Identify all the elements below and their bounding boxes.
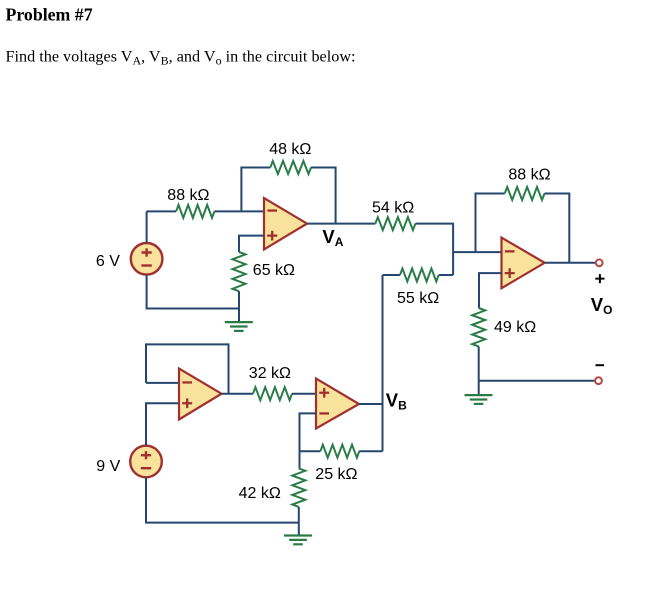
svg-text:25 kΩ: 25 kΩ: [315, 466, 357, 483]
wire 48k feedback right: [311, 168, 336, 224]
wire 54k to junction: [415, 224, 453, 275]
resistor R4 54k: [375, 217, 415, 230]
wire down to 42k: [299, 451, 301, 468]
terminal - circle: [595, 377, 602, 384]
svg-text:Find the voltages VA, VB, and: Find the voltages VA, VB, and Vo in the …: [6, 47, 356, 67]
svg-text:42 kΩ: 42 kΩ: [239, 485, 281, 502]
svg-text:65 kΩ: 65 kΩ: [253, 262, 295, 279]
ground G1: [225, 321, 253, 323]
resistor R6 88k: [505, 187, 545, 200]
wire V2 bottom return: [146, 477, 299, 522]
svg-text:VO: VO: [591, 294, 613, 317]
resistor R1 88k: [176, 205, 214, 218]
ground G3: [465, 394, 493, 396]
svg-text:49 kΩ: 49 kΩ: [494, 319, 536, 336]
wire 65k bottom: [238, 291, 240, 308]
wire U4 output to VB node: [359, 403, 383, 405]
wire V1 bottom return: [147, 275, 239, 309]
wire U1 plus input to 65k: [239, 236, 264, 252]
wire V1 top to 88k: [146, 211, 148, 243]
svg-text:88 kΩ: 88 kΩ: [508, 166, 550, 183]
resistor R2 48k: [270, 161, 311, 174]
svg-text:32 kΩ: 32 kΩ: [249, 365, 291, 382]
wire 42k bottom: [298, 507, 300, 523]
wire ground1 stem: [238, 309, 240, 322]
label + terminal: [595, 274, 604, 283]
wire 55k right lead: [439, 274, 453, 276]
wire VB vertical riser: [382, 275, 384, 451]
svg-text:9 V: 9 V: [96, 458, 120, 475]
ground G2: [284, 534, 312, 536]
resistor R7 49k: [472, 308, 485, 347]
wire U2 output to 32k: [222, 393, 254, 395]
wire U4 minus input down: [300, 413, 317, 451]
wire 88k2 feedback left: [476, 194, 505, 253]
op-amp U4: [316, 379, 359, 429]
wire 32k to U4 plus: [292, 393, 316, 395]
resistor R9 25k: [320, 445, 359, 458]
svg-text:Problem #7: Problem #7: [6, 4, 93, 24]
wire 49k bottom: [478, 347, 480, 381]
wire 25k left lead: [300, 450, 321, 452]
wire V2 top to U2 plus: [146, 403, 179, 446]
wire U3 plus to 49k: [479, 273, 502, 308]
svg-text:88 kΩ: 88 kΩ: [167, 187, 209, 204]
resistor R8 32k: [253, 387, 292, 400]
wire 48k feedback left: [241, 168, 270, 212]
wire ground2 stem: [298, 523, 300, 535]
wire 25k right lead to VB riser: [359, 450, 382, 452]
wire bottom to minus terminal: [479, 380, 595, 382]
wire U1 output VA: [307, 223, 375, 225]
svg-text:6 V: 6 V: [96, 253, 120, 270]
svg-text:VB: VB: [386, 389, 407, 412]
wire ground3 stem: [478, 381, 480, 394]
svg-text:55 kΩ: 55 kΩ: [397, 290, 439, 307]
resistor R10 42k: [292, 468, 305, 507]
resistor R5 55k: [400, 269, 439, 282]
terminal + circle: [596, 259, 603, 266]
wire U2 feedback loop: [146, 344, 229, 393]
op-amp U1: [264, 198, 307, 249]
wire 88k2 feedback right: [545, 194, 570, 263]
op-amp U2: [179, 369, 222, 420]
wire 55k left lead: [383, 274, 401, 276]
resistor R3 65k: [233, 252, 246, 291]
wire junction to U3 minus: [453, 251, 501, 253]
label - terminal: [596, 364, 605, 366]
source V2 9V: [130, 446, 162, 478]
svg-text:54 kΩ: 54 kΩ: [372, 200, 414, 217]
op-amp U3: [502, 238, 545, 289]
wire 88k leads: [147, 210, 264, 212]
wire U3 output to terminal: [545, 262, 596, 264]
source V1 6V: [131, 243, 163, 275]
svg-text:VA: VA: [322, 226, 343, 249]
svg-text:48 kΩ: 48 kΩ: [269, 141, 311, 158]
